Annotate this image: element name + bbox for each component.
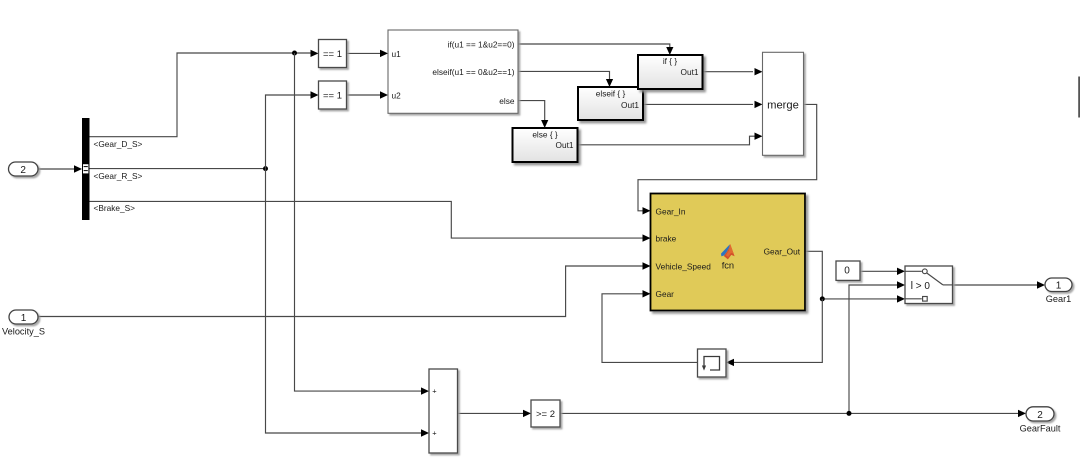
arrowhead into sum bottom — [421, 429, 429, 436]
bus selector — [82, 118, 90, 220]
inport 2 — [9, 162, 39, 176]
compare eq1 block — [319, 40, 347, 68]
svg-text:Velocity_S: Velocity_S — [2, 326, 45, 336]
wire else-output to else-action — [518, 101, 545, 120]
MATLAB logo — [721, 244, 735, 259]
svg-text:>= 2: >= 2 — [536, 409, 555, 420]
svg-text:Gear_In: Gear_In — [656, 206, 686, 216]
elseif action subsystem — [578, 87, 643, 120]
wire fault junction up to switch input2 — [849, 285, 897, 413]
wire inport2 to bus selector — [38, 168, 74, 170]
arrowhead left into unit delay — [726, 359, 734, 366]
svg-text:1: 1 — [1056, 281, 1062, 292]
svg-text:u1: u1 — [392, 49, 402, 59]
wire Velocity_S to Vehicle_Speed — [38, 266, 643, 317]
wire ge2 output to GearFault — [560, 412, 1018, 414]
svg-text:Gear1: Gear1 — [1046, 294, 1072, 304]
sum block — [429, 369, 458, 453]
arrowhead into GearFault — [1018, 410, 1026, 417]
arrowhead into u1 — [380, 50, 388, 57]
svg-text:GearFault: GearFault — [1020, 424, 1061, 434]
arrowhead into brake — [643, 234, 651, 241]
constant 0 block — [836, 261, 860, 280]
arrowhead into merge3 — [755, 133, 763, 140]
arrowhead into merge1 — [755, 68, 763, 75]
svg-text:brake: brake — [656, 233, 677, 243]
arrowhead down into else-action — [541, 120, 548, 128]
arrowhead into eq1 top — [311, 50, 319, 57]
arrowhead into switch1 — [897, 268, 905, 275]
outport Gear1 — [1045, 278, 1072, 292]
svg-text:u2: u2 — [392, 90, 402, 100]
svg-text:fcn: fcn — [722, 261, 734, 271]
svg-text:== 1: == 1 — [323, 91, 342, 102]
wire eq1 to u1 — [347, 52, 381, 54]
wire elseif-output to elseif-action — [518, 71, 610, 79]
arrowhead into u2 — [380, 91, 388, 98]
scrollbar fragment right edge — [1078, 77, 1080, 118]
svg-text:if(u1 == 1&u2==0): if(u1 == 1&u2==0) — [448, 39, 515, 49]
wire eq2 to u2 — [347, 94, 381, 96]
wire merge output to Gear_In — [638, 104, 817, 210]
arrowhead into switch3 — [897, 295, 905, 302]
MATLAB Function block fcn — [651, 194, 806, 311]
switch block — [905, 266, 953, 304]
svg-text:<Gear_D_S>: <Gear_D_S> — [94, 139, 143, 149]
svg-text:if { }: if { } — [663, 56, 678, 66]
wire Brake_S tap to brake input — [90, 201, 643, 238]
svg-text:2: 2 — [1037, 410, 1043, 421]
arrowhead into ge2 — [523, 410, 531, 417]
node Gear_D junction — [292, 51, 297, 56]
svg-text:Gear_Out: Gear_Out — [764, 247, 801, 257]
wire Gear_D_S tap — [90, 53, 312, 137]
wire if-action Out1 to merge — [703, 71, 754, 73]
svg-text:Out1: Out1 — [621, 100, 639, 110]
wire switch output to outport Gear1 — [953, 284, 1038, 286]
arrowhead into switch2 — [897, 281, 905, 288]
svg-text:+: + — [432, 429, 437, 438]
wire junction up to eq2 — [266, 95, 312, 169]
else action subsystem — [513, 128, 578, 162]
wire if-output to if-action — [518, 44, 670, 47]
svg-text:elseif { }: elseif { } — [596, 88, 626, 98]
svg-text:else { }: else { } — [532, 129, 558, 139]
wire Gear_Out to switch input3 — [805, 251, 897, 299]
svg-text:== 1: == 1 — [323, 49, 342, 60]
inport 1 — [9, 310, 38, 324]
svg-text:<Gear_R_S>: <Gear_R_S> — [94, 171, 143, 181]
svg-text:2: 2 — [20, 165, 26, 176]
arrowhead into Gear — [643, 290, 651, 297]
arrowhead down into if-action — [666, 47, 673, 55]
merge block — [763, 52, 804, 155]
svg-text:+: + — [432, 387, 437, 396]
svg-text:Out1: Out1 — [681, 67, 699, 77]
svg-text:1: 1 — [21, 313, 27, 324]
arrowhead into Gear1 — [1037, 281, 1045, 288]
arrowhead into bus selector — [74, 165, 82, 172]
outport GearFault — [1026, 407, 1054, 421]
arrowhead into sum top — [421, 387, 429, 394]
wire junction down to sum top input — [295, 53, 422, 391]
unit delay block — [698, 349, 727, 377]
if block U1 — [388, 30, 518, 113]
svg-text:merge: merge — [767, 99, 799, 111]
arrowhead into merge2 — [755, 101, 763, 108]
svg-text:Gear: Gear — [656, 289, 675, 299]
node Gear_R junction — [263, 166, 268, 171]
if action subsystem — [638, 55, 703, 89]
wire sum output to ge2 — [458, 412, 524, 414]
wire junction down to unit delay — [734, 299, 822, 363]
wire elseif-action Out1 to merge — [643, 103, 753, 105]
wire Gear_R_S tap — [90, 168, 266, 170]
arrowhead into Gear_In — [643, 207, 651, 214]
svg-text:> 0: > 0 — [916, 281, 931, 292]
svg-text:Vehicle_Speed: Vehicle_Speed — [656, 261, 712, 271]
bus selector port icon — [83, 164, 89, 174]
svg-text:elseif(u1 == 0&u2==1): elseif(u1 == 0&u2==1) — [432, 67, 514, 77]
svg-text:<Brake_S>: <Brake_S> — [94, 203, 136, 213]
arrowhead down into elseif-action — [606, 79, 613, 87]
relational ge2 block — [531, 400, 560, 427]
wire else-action Out1 to merge — [578, 136, 755, 145]
node Gear_Out junction — [820, 296, 825, 301]
svg-text:0: 0 — [844, 266, 850, 277]
wire unit delay out to Gear input — [602, 294, 698, 363]
arrowhead into eq2 — [311, 91, 319, 98]
svg-text:else: else — [499, 96, 515, 106]
arrowhead into Vehicle_Speed — [643, 262, 651, 269]
wire constant0 to switch input1 — [860, 270, 897, 272]
wire junction down to sum bottom input — [266, 169, 422, 433]
compare eq2 block — [319, 81, 347, 109]
node fault junction — [847, 411, 852, 416]
svg-text:Out1: Out1 — [556, 140, 574, 150]
